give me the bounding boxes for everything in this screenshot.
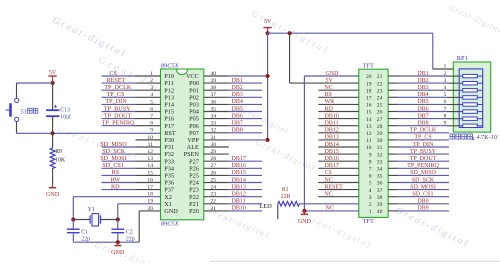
connector J1 TFT body xyxy=(359,69,388,217)
svg-text:1: 1 xyxy=(150,71,153,77)
TFT pin 29 (TP_DCLK) right xyxy=(377,128,449,137)
svg-text:VPP: VPP xyxy=(187,137,199,144)
svg-text:22: 22 xyxy=(377,81,383,87)
TFT pin 3 (NC) left xyxy=(318,192,372,201)
svg-text:28: 28 xyxy=(211,156,217,162)
svg-text:2: 2 xyxy=(444,71,447,77)
svg-text:P30: P30 xyxy=(164,137,174,144)
svg-text:VCC: VCC xyxy=(186,73,199,80)
svg-text:40: 40 xyxy=(211,71,217,77)
U1 pin 28 (P27) xyxy=(189,156,262,165)
svg-text:DB2: DB2 xyxy=(417,78,428,84)
wire 5V to TFT pin 19 xyxy=(290,33,359,83)
svg-text:R9: R9 xyxy=(55,149,62,155)
svg-text:DB6: DB6 xyxy=(232,113,243,119)
svg-text:P22: P22 xyxy=(189,194,199,201)
svg-text:12: 12 xyxy=(366,131,372,137)
TFT pin 25 (DB5) right xyxy=(377,99,448,108)
svg-text:10uf: 10uf xyxy=(60,114,71,121)
svg-text:TP_PENIRQ: TP_PENIRQ xyxy=(407,163,439,169)
svg-text:14: 14 xyxy=(147,163,153,169)
svg-text:DB1: DB1 xyxy=(232,78,243,84)
svg-text:6: 6 xyxy=(444,99,447,105)
svg-text:DB6: DB6 xyxy=(417,106,428,112)
svg-text:SD_MISO: SD_MISO xyxy=(410,170,436,176)
junction RST rail / R9 xyxy=(51,131,55,135)
svg-text:5: 5 xyxy=(444,92,447,98)
svg-text:4.7K-10: 4.7K-10 xyxy=(477,134,497,141)
svg-text:37: 37 xyxy=(377,188,383,194)
svg-text:ALE: ALE xyxy=(187,144,199,151)
U1 pin 26 (P25) xyxy=(189,170,262,179)
svg-text:TP_BUSY: TP_BUSY xyxy=(410,149,437,155)
svg-text:51: 51 xyxy=(21,110,27,116)
resistor pack RP1 body xyxy=(453,62,490,132)
crystal Y1 xyxy=(73,214,118,226)
TFT pin 13 (DB11) left xyxy=(318,121,372,130)
svg-text:DB14: DB14 xyxy=(325,142,339,148)
TFT pin 8 (DB16) left xyxy=(318,156,372,165)
U1 pin 23 (P22) xyxy=(189,192,262,201)
U1 pin 3 (P12) xyxy=(102,84,175,94)
svg-text:SD_CS1: SD_CS1 xyxy=(412,192,433,198)
svg-text:P13: P13 xyxy=(164,94,174,101)
svg-text:P05: P05 xyxy=(189,116,199,123)
svg-text:RS: RS xyxy=(112,169,120,176)
TFT pin 27 (DB7) right xyxy=(377,113,448,122)
svg-text:DB12: DB12 xyxy=(232,192,246,198)
svg-text:18: 18 xyxy=(147,192,153,198)
svg-text:30: 30 xyxy=(377,138,383,144)
svg-text:5: 5 xyxy=(369,181,372,187)
U1 pin 11 (P31) xyxy=(100,141,174,151)
svg-text:34: 34 xyxy=(377,167,383,173)
junction ground rail xyxy=(116,240,120,244)
svg-text:RW: RW xyxy=(111,176,121,183)
svg-text:DB10: DB10 xyxy=(232,206,246,212)
svg-text:SD_SCK: SD_SCK xyxy=(102,148,126,155)
svg-text:32: 32 xyxy=(211,128,217,134)
label R1 22R xyxy=(281,187,291,200)
svg-text:DB13: DB13 xyxy=(232,184,246,190)
RP1 resistor element pin 5 xyxy=(444,92,483,99)
svg-text:35: 35 xyxy=(211,106,217,112)
svg-text:8: 8 xyxy=(444,113,447,119)
svg-text:13: 13 xyxy=(366,124,372,130)
svg-text:SD_CS1: SD_CS1 xyxy=(102,162,124,169)
svg-text:C1: C1 xyxy=(81,229,88,235)
svg-text:4: 4 xyxy=(444,85,447,91)
U1 pin 24 (P23) xyxy=(189,184,262,193)
power 5V (reset circuit) xyxy=(48,70,57,83)
svg-text:5V: 5V xyxy=(326,78,334,84)
svg-text:38: 38 xyxy=(377,195,383,201)
svg-text:TP_CS: TP_CS xyxy=(107,91,125,98)
svg-text:15: 15 xyxy=(366,110,372,116)
junction 5V / TFT-5V drop xyxy=(288,31,292,35)
U1 pin 15 (P35) xyxy=(102,169,175,179)
TFT pin 22 (DB2) right xyxy=(377,78,448,87)
svg-text:3: 3 xyxy=(150,85,153,91)
switch S1 51 reset button xyxy=(6,98,19,121)
wire switch top leg xyxy=(16,83,18,98)
svg-text:X1: X1 xyxy=(164,201,172,208)
U1 pin 5 (P14) xyxy=(102,98,175,108)
svg-text:DB15: DB15 xyxy=(232,170,246,176)
svg-text:DB10: DB10 xyxy=(325,113,339,119)
resistor R1 xyxy=(278,201,359,206)
junction crystal left / C1 xyxy=(71,217,75,221)
svg-text:DB17: DB17 xyxy=(325,163,339,169)
TFT pin 23 (DB3) right xyxy=(377,85,448,94)
RP1 resistor element pin 7 xyxy=(444,106,483,113)
svg-text:TFT: TFT xyxy=(363,218,374,225)
svg-text:DB11: DB11 xyxy=(325,121,339,127)
svg-text:P33: P33 xyxy=(164,158,174,165)
svg-text:6: 6 xyxy=(369,174,372,180)
svg-text:27: 27 xyxy=(377,117,383,123)
svg-text:TP_DCLK: TP_DCLK xyxy=(410,128,437,134)
ground (TFT) xyxy=(298,211,312,225)
svg-text:DB5: DB5 xyxy=(417,99,428,105)
svg-text:GND: GND xyxy=(46,191,60,198)
svg-text:DB8: DB8 xyxy=(232,128,243,134)
svg-text:25: 25 xyxy=(211,177,217,183)
svg-text:5V: 5V xyxy=(49,70,57,76)
TFT pin 19 (5V) left xyxy=(326,78,372,87)
wire X2 net: U1 pin 18 to crystal left xyxy=(73,197,160,220)
svg-text:P17: P17 xyxy=(164,123,174,130)
svg-text:18: 18 xyxy=(366,88,372,94)
svg-text:DB3: DB3 xyxy=(232,92,243,98)
svg-text:TP_DIN: TP_DIN xyxy=(105,98,127,105)
label C2 22p xyxy=(126,229,135,242)
svg-text:NC: NC xyxy=(325,85,333,91)
svg-text:39: 39 xyxy=(211,78,217,84)
TFT pin 2 (wire) left xyxy=(369,202,372,208)
svg-text:RS: RS xyxy=(325,92,332,98)
svg-text:9: 9 xyxy=(150,128,153,134)
capacitor C1 xyxy=(67,220,80,243)
svg-text:28: 28 xyxy=(377,124,383,130)
svg-text:CS: CS xyxy=(325,170,332,176)
U1 pin 40 (VCC) xyxy=(186,71,268,80)
svg-text:P26: P26 xyxy=(189,165,199,172)
RP1 resistor element pin 8 xyxy=(444,113,483,120)
U1 pin 12 (P32) xyxy=(102,148,175,158)
border frame line xyxy=(210,260,500,262)
svg-text:TP_DOUT: TP_DOUT xyxy=(104,112,132,119)
svg-text:2: 2 xyxy=(150,78,153,84)
U1 pin 29 (PSEN) xyxy=(183,149,228,158)
svg-text:14: 14 xyxy=(366,117,372,123)
wire 5V rail to switch xyxy=(17,82,53,84)
svg-text:P27: P27 xyxy=(189,158,199,165)
TFT pin 6 (CS) left xyxy=(318,170,372,179)
U1 pin 17 (P37) xyxy=(102,183,175,193)
svg-text:25: 25 xyxy=(377,103,383,109)
svg-text:10: 10 xyxy=(366,145,372,151)
LED stub wire xyxy=(277,204,279,220)
U1 pin 27 (P26) xyxy=(189,163,262,172)
U1 pin 13 (P33) xyxy=(100,155,174,165)
svg-text:P11: P11 xyxy=(164,80,174,87)
svg-text:P21: P21 xyxy=(189,201,199,208)
svg-text:PSEN: PSEN xyxy=(183,151,199,158)
svg-text:SD_MOSI: SD_MOSI xyxy=(410,184,436,190)
RP1 pin 1 stub xyxy=(433,64,454,70)
svg-text:23: 23 xyxy=(211,192,217,198)
TFT pin 40 (DB9) right xyxy=(377,206,449,215)
svg-text:8: 8 xyxy=(150,121,153,127)
svg-text:17: 17 xyxy=(147,185,153,191)
svg-text:RP1: RP1 xyxy=(457,55,468,62)
wire RST rail to U1 pin 9 xyxy=(17,132,161,134)
TFT pin 28 (DB8) right xyxy=(377,121,448,130)
TFT pin 37 (SD_MOSI) right xyxy=(377,184,449,193)
svg-text:37: 37 xyxy=(211,92,217,98)
svg-text:9: 9 xyxy=(444,121,447,127)
ground (crystal) xyxy=(111,242,125,256)
U1 pin 31 (VPP) xyxy=(187,135,267,144)
U1 pin 16 (P36) xyxy=(102,176,175,186)
TFT pin 10 (DB14) left xyxy=(318,142,372,151)
svg-text:DB7: DB7 xyxy=(232,121,243,127)
capacitor C13 xyxy=(46,83,59,133)
svg-text:TP_BUSY: TP_BUSY xyxy=(104,105,131,112)
svg-text:WR: WR xyxy=(325,99,335,105)
svg-text:P23: P23 xyxy=(189,187,199,194)
U1 pin 4 (P13) xyxy=(102,91,175,101)
U1 pin 7 (P16) xyxy=(102,112,175,122)
junction VPP corner xyxy=(266,138,270,142)
svg-text:29: 29 xyxy=(377,131,383,137)
TFT pin 35 (SD_MISO) right xyxy=(377,170,449,179)
wire switch bottom leg xyxy=(16,122,18,134)
svg-text:20: 20 xyxy=(147,206,153,212)
svg-text:TP_DOUT: TP_DOUT xyxy=(410,156,437,162)
U1 pin 39 (P00) xyxy=(189,78,262,87)
U1 pin 33 (P06) xyxy=(189,121,262,130)
svg-text:P36: P36 xyxy=(164,180,174,187)
TFT pin 17 (RS) left xyxy=(318,92,372,101)
RP1 resistor element pin 2 xyxy=(444,71,483,78)
svg-text:DB2: DB2 xyxy=(232,85,243,91)
svg-text:P03: P03 xyxy=(189,102,199,109)
svg-text:6: 6 xyxy=(150,106,153,112)
wire X1 net: U1 pin 19 to crystal right xyxy=(118,204,161,220)
svg-text:P00: P00 xyxy=(189,80,199,87)
TFT pin 33 (TP_DOUT) right xyxy=(377,156,449,165)
svg-text:31: 31 xyxy=(211,135,217,141)
svg-text:DB1: DB1 xyxy=(417,71,428,77)
U1 pin 9 (RST) xyxy=(150,128,176,137)
TFT pin 34 (TP_PENIRQ) right xyxy=(377,163,449,172)
svg-text:Y1: Y1 xyxy=(88,207,95,213)
svg-text:16: 16 xyxy=(147,177,153,183)
svg-text:RST: RST xyxy=(164,130,176,137)
svg-text:27: 27 xyxy=(211,163,217,169)
svg-text:39: 39 xyxy=(377,202,383,208)
svg-text:P10: P10 xyxy=(164,73,174,80)
svg-text:11: 11 xyxy=(148,142,154,148)
svg-text:C13: C13 xyxy=(60,107,70,113)
svg-text:X2: X2 xyxy=(164,194,172,201)
svg-text:19: 19 xyxy=(366,81,372,87)
svg-text:17: 17 xyxy=(366,96,372,102)
svg-text:22: 22 xyxy=(211,199,217,205)
svg-text:DB0: DB0 xyxy=(417,199,428,205)
svg-text:P24: P24 xyxy=(189,180,200,187)
svg-text:P14: P14 xyxy=(164,102,175,109)
svg-text:10: 10 xyxy=(147,135,153,141)
svg-text:26: 26 xyxy=(377,110,383,116)
svg-text:11: 11 xyxy=(366,138,372,144)
svg-text:26: 26 xyxy=(211,170,217,176)
U1 pin 32 (P07) xyxy=(189,128,262,137)
svg-text:19: 19 xyxy=(147,199,153,205)
svg-text:TP_DCLK: TP_DCLK xyxy=(104,84,132,91)
svg-text:TFT: TFT xyxy=(363,63,374,70)
svg-text:P35: P35 xyxy=(164,173,174,180)
svg-text:DB13: DB13 xyxy=(325,135,339,141)
svg-text:2: 2 xyxy=(369,202,372,208)
U1 pin 6 (P15) xyxy=(102,105,175,115)
TFT pin 16 (WR) left xyxy=(318,99,372,108)
svg-text:DB14: DB14 xyxy=(232,177,246,183)
svg-text:DB11: DB11 xyxy=(232,199,246,205)
svg-text:DB17: DB17 xyxy=(232,156,246,162)
junction GND / NC row xyxy=(302,209,306,213)
junction crystal right / C2 xyxy=(116,217,120,221)
TFT pin 30 (TP_CS) right xyxy=(377,135,449,144)
U1 pin 37 (P02) xyxy=(189,92,262,101)
svg-text:22R: 22R xyxy=(281,194,291,200)
U1 pin 19 (X1) xyxy=(147,199,171,208)
svg-text:P16: P16 xyxy=(164,116,174,123)
svg-text:34: 34 xyxy=(211,114,217,120)
wire 5V drop to VCC and VPP xyxy=(267,33,269,140)
svg-text:7: 7 xyxy=(369,167,372,173)
svg-text:P37: P37 xyxy=(164,187,174,194)
U1 pin 22 (P21) xyxy=(189,199,262,208)
power 5V (middle) xyxy=(263,19,272,33)
svg-text:40: 40 xyxy=(377,209,383,215)
svg-text:P07: P07 xyxy=(189,130,199,137)
svg-text:SD_MISO: SD_MISO xyxy=(100,141,127,148)
U1 pin 1 (P10) xyxy=(102,70,175,80)
RP1 resistor element pin 9 xyxy=(444,121,483,128)
ground (R9) xyxy=(46,186,60,199)
svg-text:8: 8 xyxy=(369,159,372,165)
wire U1 pin 20 GND drop xyxy=(139,211,160,242)
svg-text:R1: R1 xyxy=(282,187,289,193)
RP1 resistor element pin 6 xyxy=(444,99,483,106)
TFT pin 21 (DB1) right xyxy=(377,71,448,80)
svg-text:DB15: DB15 xyxy=(325,149,339,155)
svg-text:DB4: DB4 xyxy=(232,99,243,105)
svg-text:5: 5 xyxy=(150,99,153,105)
svg-text:20: 20 xyxy=(366,74,372,80)
U1 pin 20 (GND) xyxy=(147,206,178,215)
svg-text:36: 36 xyxy=(377,181,383,187)
svg-text:89C5X: 89C5X xyxy=(161,221,180,228)
U1 pin 14 (P34) xyxy=(102,162,175,172)
svg-text:30: 30 xyxy=(211,142,217,148)
RP1 resistor element pin 4 xyxy=(444,85,483,92)
op IC U1 89C5X body xyxy=(161,69,204,220)
svg-text:3: 3 xyxy=(369,195,372,201)
U1 pin 34 (P05) xyxy=(189,113,262,122)
svg-text:P06: P06 xyxy=(189,123,199,130)
RP1 resistor element pin 3 xyxy=(444,78,483,85)
label C1 22p xyxy=(81,229,90,242)
TFT pin 32 (TP_BUSY) right xyxy=(377,149,449,158)
TFT pin 14 (DB10) left xyxy=(318,113,372,122)
wire TFT GND net vertical xyxy=(304,76,358,211)
label 51 reset (51fuwei) xyxy=(21,108,38,115)
svg-text:P02: P02 xyxy=(189,94,199,101)
TFT pin 9 (DB15) left xyxy=(318,149,372,158)
svg-text:33: 33 xyxy=(377,159,383,165)
wire crystal ground rail xyxy=(73,241,139,243)
svg-text:12: 12 xyxy=(147,149,153,155)
svg-text:16: 16 xyxy=(366,103,372,109)
U1 pin 36 (P03) xyxy=(189,99,262,108)
svg-text:9: 9 xyxy=(369,152,372,158)
svg-text:RESET: RESET xyxy=(107,77,126,84)
svg-text:GND: GND xyxy=(326,71,340,77)
svg-text:DB7: DB7 xyxy=(417,113,428,119)
svg-text:SD_SCK: SD_SCK xyxy=(412,177,435,183)
svg-text:DB3: DB3 xyxy=(417,85,428,91)
svg-text:10K: 10K xyxy=(55,157,66,163)
U1 pin 25 (P24) xyxy=(189,177,262,186)
svg-text:31: 31 xyxy=(377,145,383,151)
resistor R9 xyxy=(50,133,55,185)
TFT pin 15 (RD) left xyxy=(318,106,372,115)
U1 pin 21 (P20) xyxy=(189,206,262,215)
svg-text:7: 7 xyxy=(150,114,153,120)
label R9 10K xyxy=(55,149,66,163)
svg-text:5V: 5V xyxy=(264,19,272,25)
junction at 5V / C13 top xyxy=(51,81,55,85)
svg-text:35: 35 xyxy=(377,174,383,180)
svg-text:TP_PENIRQ: TP_PENIRQ xyxy=(102,120,135,127)
svg-text:TP_CS: TP_CS xyxy=(414,135,431,141)
TFT pin 11 (DB13) left xyxy=(318,135,371,144)
U1 pin 30 (ALE) xyxy=(187,142,229,151)
svg-text:NC: NC xyxy=(325,192,333,198)
svg-text:DB9: DB9 xyxy=(417,206,428,212)
TFT pin 18 (NC) left xyxy=(318,85,372,94)
wire TFT pin 1 (NC) xyxy=(304,210,358,212)
svg-text:DB5: DB5 xyxy=(232,106,243,112)
svg-text:C2: C2 xyxy=(126,229,133,235)
svg-text:32: 32 xyxy=(377,152,383,158)
U1 pin 10 (P30) xyxy=(136,135,175,144)
U1 pin 8 (P17) xyxy=(102,120,175,130)
svg-text:DB12: DB12 xyxy=(325,128,339,134)
svg-text:21: 21 xyxy=(211,206,217,212)
svg-text:P31: P31 xyxy=(164,144,174,151)
svg-text:TP_DIN: TP_DIN xyxy=(413,142,434,148)
TFT pin 24 (DB4) right xyxy=(377,92,448,101)
TFT pin 36 (SD_SCK) right xyxy=(377,177,449,186)
label pull-up resistor 4.7K-10 xyxy=(450,134,497,141)
svg-text:RD: RD xyxy=(325,106,334,112)
svg-text:DB16: DB16 xyxy=(325,156,339,162)
